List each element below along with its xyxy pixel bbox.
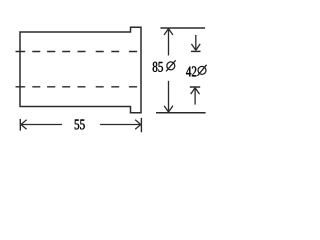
hidden line (bore top) [16,51,138,53]
dim 42: diameter symbol [197,65,206,76]
dim 42: bottom bore extension tick [190,86,200,88]
dim 42: top bore extension tick [191,50,201,52]
dim 42: value text [186,66,196,76]
dim 85: top extension line [160,27,205,29]
dim 42: lower up-pointing arrow [191,88,200,105]
dim 55: value text [75,120,85,130]
dim 55: right extension tick [140,118,142,132]
dim 55: dimension line left segment with left arrow [21,120,62,130]
dim 42: upper down-pointing arrow [191,35,200,50]
dim 55: left extension tick [19,119,21,131]
dim 85: bottom extension line [156,112,206,114]
dim 55: dimension line right segment with right arrow [100,120,141,130]
dim 85: vertical dimension line upper segment with up arrow [164,29,173,56]
dim 85: diameter symbol [166,60,176,71]
dim 85: value text [153,62,163,72]
hidden line (bore bottom) [16,86,138,88]
bushing outline (flanged sleeve profile) [20,27,141,112]
dim 85: vertical dimension line lower segment with down arrow [164,81,173,112]
